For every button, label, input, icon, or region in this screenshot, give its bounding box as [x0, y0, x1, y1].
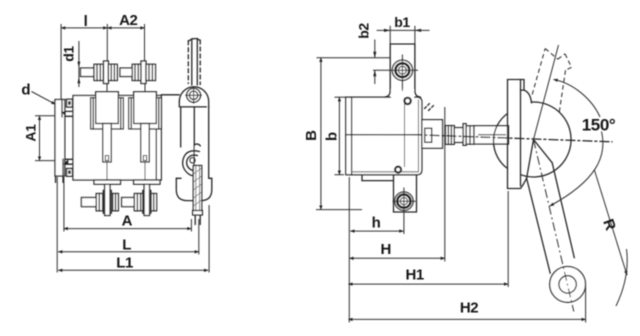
svg-text:L: L [122, 236, 131, 253]
svg-text:h: h [372, 215, 381, 232]
svg-text:A2: A2 [119, 12, 137, 29]
svg-text:l: l [84, 13, 88, 30]
svg-text:150°: 150° [582, 116, 616, 135]
svg-text:R: R [599, 217, 619, 233]
svg-text:d: d [21, 82, 30, 99]
svg-text:A1: A1 [23, 124, 39, 142]
svg-text:b: b [323, 132, 340, 141]
svg-text:H2: H2 [460, 300, 478, 317]
svg-text:B: B [303, 130, 320, 141]
svg-text:L1: L1 [116, 255, 133, 272]
svg-text:b2: b2 [356, 23, 372, 39]
svg-text:b1: b1 [394, 14, 410, 30]
svg-text:H1: H1 [406, 267, 424, 284]
svg-text:A: A [122, 213, 133, 230]
svg-text:d1: d1 [60, 46, 76, 62]
svg-text:H: H [380, 241, 390, 258]
